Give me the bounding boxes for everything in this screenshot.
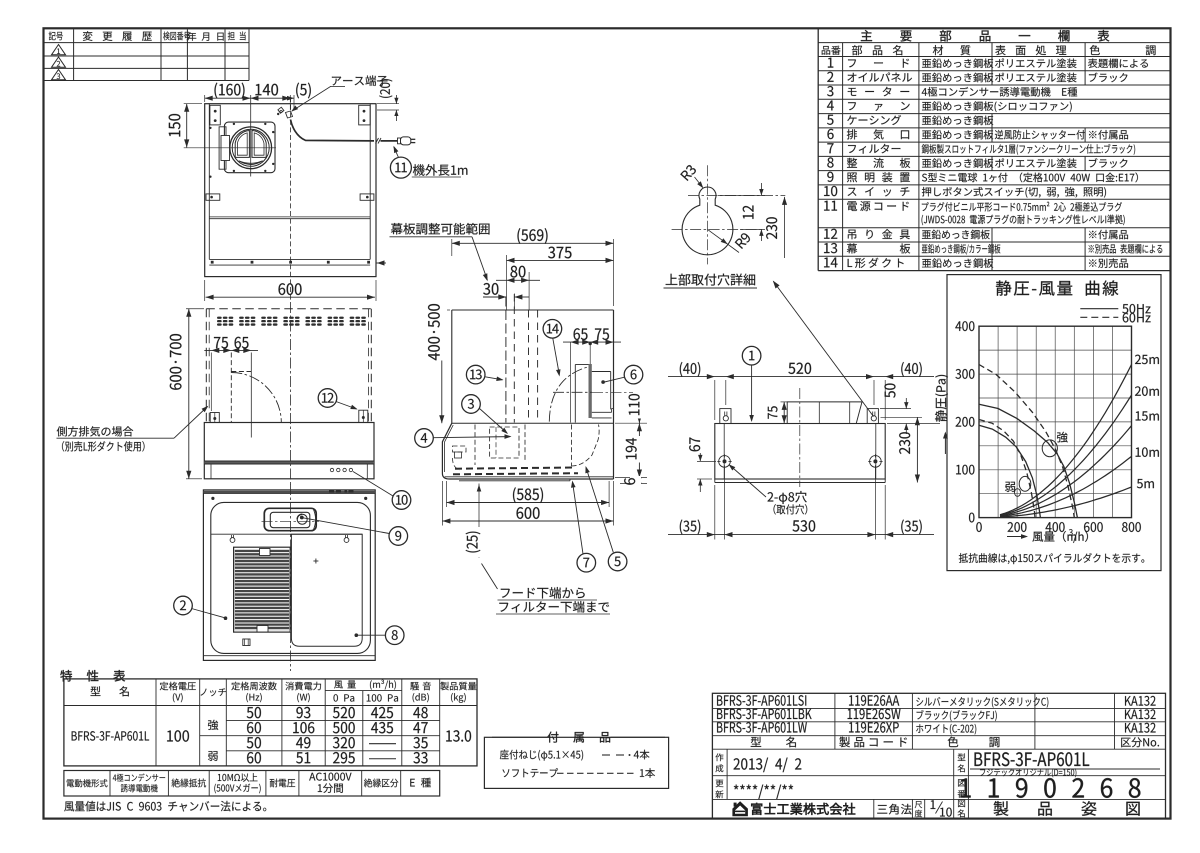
- dimension 110: [592, 391, 647, 393]
- parts row 9 照明装置: [827, 172, 833, 182]
- title block header row: [751, 737, 796, 748]
- keyhole R3 label: [680, 164, 697, 181]
- front view hanging bracket left: [210, 413, 219, 423]
- accessories title: [492, 736, 548, 738]
- top view fan wheel arch left: [235, 131, 249, 158]
- rear view mounting hole left: [719, 456, 731, 468]
- characteristics data rows: [247, 707, 261, 718]
- graph note: [959, 553, 1145, 564]
- filter handle bottom: [257, 626, 268, 633]
- rear view bracket left: [720, 409, 731, 424]
- lamp center line: [262, 520, 320, 522]
- side view lower hood outline: [442, 423, 613, 479]
- graph y axis title: [935, 375, 948, 422]
- side exhaust note: [57, 426, 134, 436]
- front view duct cover dashed outline: [206, 308, 371, 310]
- title block created date: [734, 758, 802, 773]
- top view side plate: [219, 127, 226, 169]
- power cord: [291, 120, 375, 141]
- bottom view outline: [203, 490, 375, 661]
- bottom view corner screws: [211, 497, 214, 500]
- characteristics table headers: [91, 686, 129, 696]
- bottom view panel joint line: [211, 533, 362, 535]
- dimension 600-700 front view: [186, 308, 204, 310]
- dimension (585): [446, 481, 448, 507]
- title block right labels: [953, 749, 955, 818]
- fuji kogyo logo: [732, 801, 748, 816]
- title block model name: [975, 752, 1090, 766]
- revision table headers: [49, 32, 63, 40]
- characteristics table grid: [64, 679, 477, 766]
- dimension 65 75 side view: [589, 345, 591, 364]
- parts row 8 整流板: [827, 157, 833, 167]
- revision mark triangle 2: [52, 57, 66, 67]
- side view exhaust outlet: [574, 365, 576, 423]
- graph plot border: [979, 326, 1132, 517]
- top view fan bottom slot: [239, 161, 263, 165]
- callout 6 outlet: [605, 377, 625, 382]
- accessory tape line: [502, 768, 557, 777]
- rear dimension 230: [881, 416, 923, 418]
- callout 8 oil panel: [358, 634, 385, 636]
- side view lamp hidden: [453, 446, 467, 452]
- top view center line: [290, 97, 292, 301]
- parts row 7 フィルター: [827, 143, 833, 153]
- graph x axis title: [1007, 536, 1026, 538]
- top view wall screw dots: [209, 127, 211, 129]
- dimension 30: [483, 296, 506, 298]
- top view bottom screws: [211, 261, 214, 264]
- top view hanging bracket right: [359, 105, 371, 125]
- callout 7 filter: [573, 482, 584, 554]
- drawing title: [994, 801, 1140, 816]
- dimension 75 65 front view: [210, 353, 212, 412]
- graph outer box: [947, 275, 1161, 571]
- side view bottom edge inner: [445, 476, 614, 478]
- callout 1 hood rear: [751, 365, 753, 420]
- makuita adjustable range label: [391, 223, 490, 235]
- parts row 12 吊り金具: [824, 229, 837, 239]
- parts row 11 電源コード: [824, 201, 837, 211]
- lamp housing: [264, 508, 316, 530]
- graph title: [996, 280, 1118, 295]
- side exhaust elbow arc: [231, 373, 281, 423]
- side view filter edge hidden: [455, 468, 575, 469]
- mounting hole note: [768, 491, 807, 504]
- parts table column headers: [822, 46, 841, 55]
- title block model rows: [717, 695, 806, 706]
- bottom view keyhole slot right: [344, 538, 349, 543]
- rear dimension 67: [697, 460, 716, 462]
- fan curve strong 60Hz: [979, 365, 1074, 518]
- side view motor hidden: [490, 427, 519, 458]
- earth terminal label: [332, 75, 388, 86]
- graph resistance curves: [1000, 487, 1132, 517]
- rear view center line: [799, 388, 801, 487]
- parts row 3 モーター: [827, 86, 833, 96]
- filter: [234, 547, 291, 632]
- callout 13 duct: [485, 377, 502, 380]
- accessory screw line: [500, 750, 583, 761]
- callout 9 lamp: [303, 518, 389, 534]
- front view bottom band: [204, 461, 374, 464]
- top view middle seam line: [209, 216, 370, 218]
- parts row 6 排気口: [827, 129, 833, 139]
- top view bottom strip: [209, 258, 370, 260]
- dimension 6 side view: [615, 477, 647, 479]
- side view upper box: [452, 309, 614, 311]
- graph legend 50Hz: [1080, 308, 1118, 310]
- airflow note: [64, 801, 266, 812]
- dimension 600 side view: [441, 481, 443, 526]
- front view vent grilles: [217, 317, 233, 326]
- top view fan mount square: [224, 122, 275, 173]
- graph duct length labels: [1135, 355, 1159, 364]
- notch marker weak: [1019, 476, 1031, 491]
- characteristics table title: [60, 670, 125, 682]
- rear view bottom flange: [715, 482, 885, 484]
- rear dimension 75 duct height: [781, 401, 788, 403]
- dimension (569): [451, 239, 453, 256]
- bottom view switch marks: [329, 490, 334, 493]
- side view elbow arc: [549, 367, 587, 421]
- rear view duct box: [787, 402, 862, 423]
- dimension 400-500: [440, 309, 450, 311]
- dimension 600 top view: [204, 280, 206, 301]
- title block updated date: [734, 785, 793, 800]
- parts row 5 ケーシング: [827, 115, 833, 125]
- top view inner side walls: [208, 104, 210, 260]
- rear view body: [715, 424, 885, 480]
- lamp bulb: [297, 514, 307, 524]
- top view mid bracket left: [206, 194, 220, 200]
- parts table title: [861, 30, 1109, 42]
- dimension 375: [506, 255, 508, 310]
- front view center line: [290, 302, 292, 486]
- bottom view keyhole slot left: [230, 538, 235, 543]
- graph grid: [979, 326, 1132, 517]
- callout 11 power cord: [394, 147, 399, 158]
- side view baffle: [459, 480, 570, 482]
- motor spec table: [64, 771, 440, 797]
- makuita range arrow to side view: [472, 237, 487, 280]
- keyhole detail center lines: [688, 195, 785, 197]
- power cord plug: [398, 138, 401, 144]
- dimension 80: [528, 272, 530, 310]
- scale cell: [924, 799, 926, 818]
- parts row 10 スイッチ: [824, 186, 837, 196]
- rear dimension 50: [880, 408, 911, 410]
- rear view mounting hole right: [870, 456, 882, 468]
- fan curve weak 60Hz: [979, 420, 1035, 518]
- top view fan wheel arch right: [252, 131, 266, 158]
- parts row 2 オイルパネル: [827, 72, 833, 82]
- dimension (25) filter depth: [478, 484, 480, 559]
- notch marker strong: [1042, 440, 1057, 457]
- callout 12 hanging bracket: [336, 402, 357, 410]
- parts row 1 フード: [828, 58, 833, 68]
- dimension 140 top view: [255, 84, 278, 96]
- callout 5 casing: [586, 468, 613, 553]
- filter clip: [243, 639, 250, 646]
- projection method cell: [873, 799, 875, 818]
- revision mark triangle 1: [52, 45, 66, 55]
- parts row 13 幕板: [824, 243, 837, 253]
- title block drawing number: [961, 778, 1141, 798]
- dimension (20) top view: [377, 103, 399, 105]
- fan curve strong 50Hz: [979, 404, 1077, 517]
- keyhole R9 label: [708, 229, 740, 252]
- graph legend 60Hz: [1080, 316, 1118, 318]
- top view hood outline: [205, 104, 376, 277]
- side exhaust duct dashed position: [230, 353, 232, 423]
- upper mounting hole detail label: [666, 274, 755, 286]
- graph y axis labels: [955, 321, 974, 331]
- callout 4 fan: [433, 437, 510, 438]
- top view fan center vertical line: [250, 95, 252, 177]
- detail leader arrow: [774, 282, 874, 417]
- title block left labels: [726, 749, 728, 799]
- bottom view rounded panel: [211, 502, 371, 653]
- top view mid bracket right: [360, 194, 374, 200]
- fuji kogyo company name: [751, 803, 855, 815]
- front view hood body: [204, 423, 374, 479]
- rear view bracket right: [867, 409, 878, 424]
- side view casing hidden: [524, 425, 526, 463]
- parts row 14 L形ダクト: [824, 258, 837, 268]
- fan curve weak 50Hz: [979, 425, 1040, 517]
- top view fan mount screw dots: [233, 123, 235, 125]
- callout 3 motor: [480, 409, 508, 434]
- keyhole detail outline: [682, 187, 733, 255]
- side view duct hidden lines: [505, 297, 507, 423]
- title block outline: [712, 693, 1165, 818]
- graph x axis labels: [976, 522, 981, 532]
- top view fan opening circle: [230, 127, 272, 169]
- makuita range arrow to top view: [376, 262, 386, 264]
- keyhole dimension 230: [784, 197, 786, 258]
- revision history table: [44, 42, 249, 44]
- rear dimension 35 530 35: [714, 485, 716, 540]
- dimension (5) top view: [287, 96, 294, 101]
- top view hanging bracket left: [210, 105, 220, 125]
- filter handle top: [260, 549, 271, 556]
- oil panel: [291, 534, 362, 646]
- earth terminal: [278, 107, 284, 113]
- dimension 194: [638, 423, 640, 477]
- side view outlet center line: [553, 391, 592, 393]
- callout 14 elbow duct: [553, 338, 560, 374]
- callout 2 oil panel region: [192, 609, 225, 618]
- bottom view center line: [290, 484, 292, 671]
- characteristics model name: [72, 731, 149, 740]
- main parts list table: [817, 28, 819, 270]
- parts row 4 ファン: [827, 100, 834, 110]
- bottom view oil panel screw marks: [315, 559, 317, 564]
- side view outlet adapter: [592, 371, 611, 373]
- switch buttons front view: [330, 468, 333, 471]
- accessories box: [484, 737, 668, 788]
- keyhole dimension 12: [718, 195, 765, 197]
- revision mark triangle 3: [52, 70, 66, 80]
- callout 10 switch: [353, 472, 393, 497]
- dimension (160) top view: [204, 95, 206, 102]
- dimension 150 top view: [184, 103, 202, 105]
- front view hanging bracket right: [359, 410, 368, 422]
- rear dimension 40 520 40: [714, 380, 716, 420]
- hood lower edge note: [482, 564, 498, 590]
